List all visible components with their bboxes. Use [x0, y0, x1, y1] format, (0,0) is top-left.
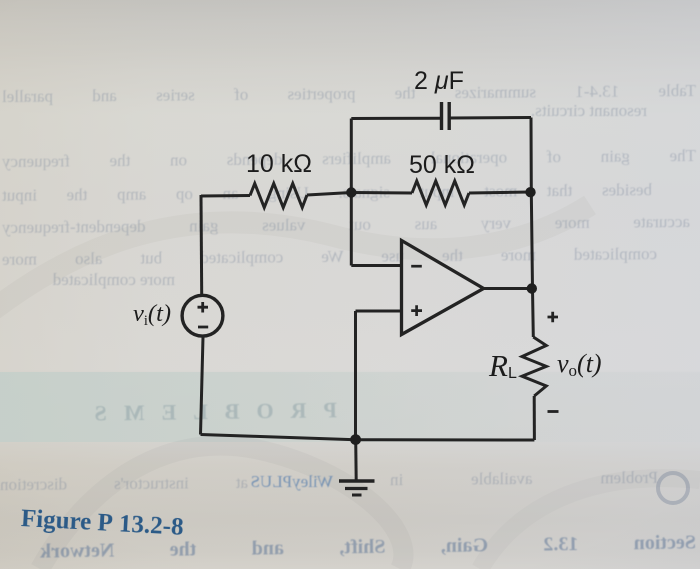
wire top feedback left — [351, 117, 441, 120]
bleed-through mirrored text lines — [2, 81, 696, 107]
wire right vertical — [531, 118, 533, 338]
svg-text:RL: RL — [488, 348, 517, 383]
op-amp plus pin label — [411, 305, 422, 316]
wire node A vertical (top wire to inverting input) — [350, 119, 353, 266]
node B junction dot — [525, 187, 535, 197]
wire inverting input — [351, 264, 403, 267]
wire ground stub — [354, 440, 358, 482]
node A junction dot — [346, 187, 356, 197]
svg-text:vi(t): vi(t) — [133, 300, 171, 329]
resistor 10 kOhm — [250, 184, 307, 208]
source plus sign — [198, 302, 209, 313]
wire top-left horizontal — [201, 194, 250, 198]
wire noninverting input — [356, 310, 404, 313]
wire 50k to node B — [469, 192, 530, 193]
svg-text:10 kΩ: 10 kΩ — [246, 150, 312, 178]
wire node A to 50k — [351, 191, 412, 195]
capacitor 2uF — [442, 102, 450, 130]
wire noninverting vertical to ground rail — [354, 311, 357, 440]
node C output junction dot — [527, 283, 537, 293]
wire left vertical top (source to 10k row) — [200, 195, 204, 294]
svg-text:50 kΩ: 50 kΩ — [409, 151, 475, 179]
wire top feedback right — [449, 116, 531, 120]
wire RL to bottom — [533, 396, 536, 440]
ground — [339, 479, 375, 483]
op-amp minus pin label — [411, 265, 422, 268]
figure caption — [20, 505, 184, 542]
svg-text:2 μF: 2 μF — [414, 67, 464, 95]
resistor RL — [522, 337, 546, 396]
svg-text:vo(t): vo(t) — [557, 349, 602, 380]
ground rail junction dot — [350, 434, 361, 445]
source minus sign — [198, 326, 208, 329]
wire left vertical bottom — [201, 337, 204, 435]
resistor 50 kOhm — [412, 181, 469, 205]
wire op-amp output — [484, 287, 532, 290]
op-amp U1 — [402, 241, 484, 335]
output minus sign — [548, 410, 559, 413]
wire 10k to node A — [307, 193, 351, 196]
wire bottom rail — [201, 435, 535, 441]
voltage source vi(t) — [182, 295, 223, 336]
output plus sign — [548, 312, 559, 323]
